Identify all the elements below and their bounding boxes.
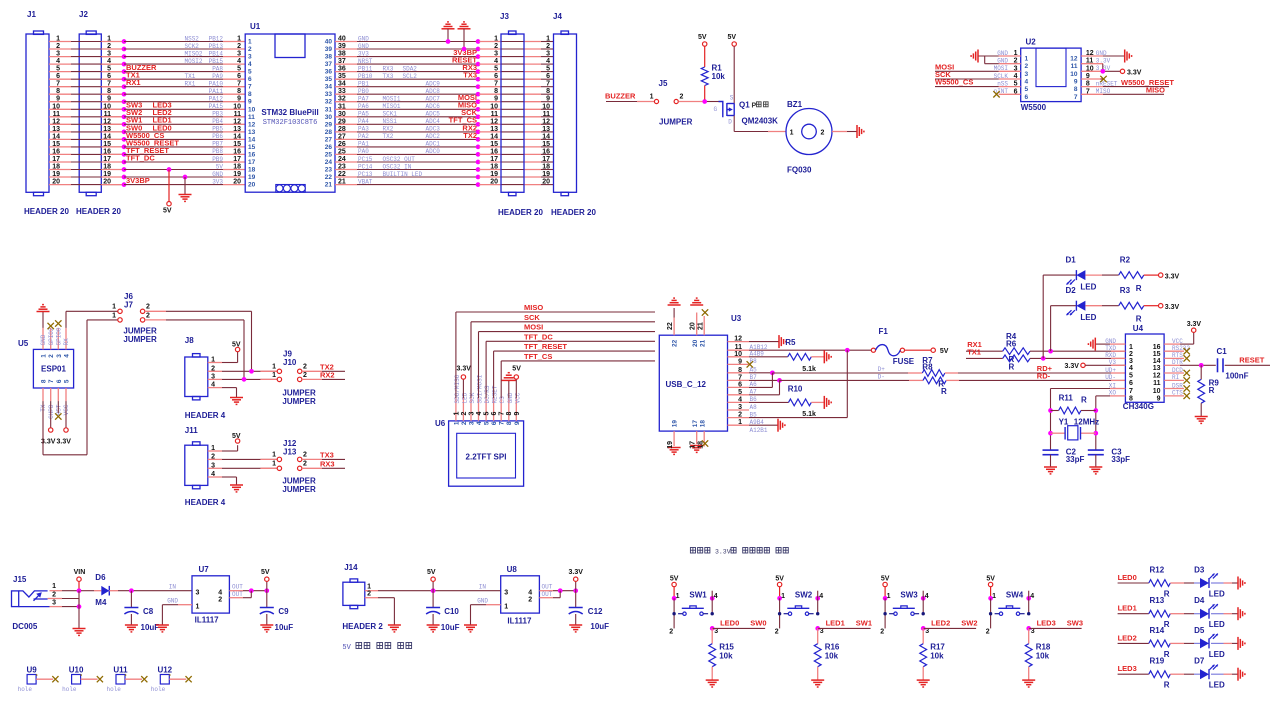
svg-text:10k: 10k	[719, 652, 733, 661]
svg-text:19: 19	[233, 171, 241, 178]
svg-text:10: 10	[103, 103, 111, 110]
svg-text:7: 7	[499, 412, 506, 416]
svg-text:J13: J13	[283, 448, 297, 457]
wire D3 to ground	[1211, 582, 1224, 584]
diode D6 M4	[81, 590, 94, 592]
module U6 2.2TFT SPI	[449, 421, 524, 486]
svg-text:R12: R12	[1150, 566, 1165, 575]
svg-text:1: 1	[676, 593, 680, 600]
svg-text:MISO: MISO	[1146, 86, 1165, 95]
power 3.3V U5 VCC	[65, 401, 67, 428]
svg-text:7: 7	[499, 421, 506, 425]
svg-text:2: 2	[367, 591, 371, 598]
svg-text:9: 9	[494, 96, 498, 103]
U1 bottom circles	[276, 185, 305, 193]
resistor R19	[1149, 671, 1171, 678]
J15 pin1 wire VIN	[50, 590, 63, 592]
buzzer BZ1 FQ030	[786, 109, 832, 155]
svg-text:LED3: LED3	[1037, 619, 1056, 628]
svg-text:W5500: W5500	[1021, 103, 1047, 112]
power 5V output U7	[266, 582, 268, 591]
svg-text:SDO/MISO: SDO/MISO	[454, 374, 461, 403]
svg-text:3: 3	[211, 462, 215, 469]
svg-text:RX3: RX3	[383, 65, 394, 72]
wire bus-right row 12	[335, 123, 357, 125]
svg-text:16: 16	[248, 151, 256, 158]
wire LED3	[1118, 673, 1149, 675]
svg-text:UD+: UD+	[1105, 367, 1116, 374]
svg-text:11: 11	[1071, 63, 1078, 70]
svg-text:10: 10	[490, 103, 498, 110]
svg-text:2: 2	[494, 43, 498, 50]
svg-text:3: 3	[494, 51, 498, 58]
svg-text:R5: R5	[785, 338, 796, 347]
resistor R17 10k	[922, 628, 924, 643]
svg-text:R8: R8	[922, 363, 933, 372]
svg-text:2: 2	[211, 453, 215, 460]
jumper J10	[277, 377, 281, 381]
svg-text:10k: 10k	[1036, 652, 1050, 661]
svg-text:SDI/MOSI: SDI/MOSI	[477, 375, 484, 404]
svg-text:2: 2	[303, 461, 307, 468]
U6 pin 8	[508, 398, 510, 421]
J8 pin 4	[208, 387, 222, 389]
svg-text:2: 2	[775, 628, 779, 635]
wire U6 MOSI	[478, 332, 480, 398]
svg-text:HEADER 20: HEADER 20	[76, 207, 121, 216]
svg-text:17: 17	[52, 156, 60, 163]
wire bus-right row 19	[335, 176, 357, 178]
svg-text:PB9: PB9	[212, 156, 223, 163]
svg-text:1: 1	[272, 364, 276, 371]
U2 pin 5 wire	[999, 86, 1021, 88]
svg-text:5: 5	[1129, 373, 1133, 380]
switch SW1	[672, 596, 677, 601]
U3 pin 17 to ground	[696, 431, 698, 444]
U3 pin2 wire to 5V net	[749, 417, 847, 419]
svg-text:SCK2: SCK2	[185, 43, 200, 50]
svg-text:MOSI: MOSI	[524, 323, 543, 332]
svg-text:34: 34	[338, 81, 346, 88]
U5 bottom pin 7	[50, 388, 52, 401]
svg-text:2: 2	[146, 304, 150, 311]
svg-text:9: 9	[56, 96, 60, 103]
svg-text:3.3V: 3.3V	[1096, 58, 1111, 65]
svg-text:4: 4	[528, 590, 532, 597]
U2 left grounds	[978, 55, 999, 57]
svg-text:STM32F103C8T6: STM32F103C8T6	[263, 119, 318, 127]
wire R12 to D3	[1170, 582, 1184, 584]
svg-text:2: 2	[461, 412, 468, 416]
svg-text:J4: J4	[553, 12, 562, 21]
wire bus-left row 16	[49, 153, 71, 155]
svg-text:2: 2	[237, 43, 241, 50]
svg-text:4: 4	[1030, 593, 1034, 600]
svg-text:10: 10	[248, 106, 256, 113]
svg-text:29: 29	[325, 121, 333, 128]
svg-text:HEADER 20: HEADER 20	[24, 207, 69, 216]
J14 pin1 wire	[365, 590, 378, 592]
svg-text:ESP01: ESP01	[41, 365, 66, 374]
wire bus-right row 14	[335, 138, 357, 140]
svg-text:D6: D6	[95, 573, 106, 582]
svg-text:ADC9: ADC9	[426, 81, 441, 88]
svg-text:37: 37	[338, 58, 346, 65]
svg-text:11: 11	[1153, 380, 1161, 387]
U2 pin 6 wire	[999, 93, 1021, 95]
ground U7 GND	[178, 604, 192, 606]
svg-text:1: 1	[272, 461, 276, 468]
wire U6 MISO	[455, 312, 457, 398]
svg-text:VBAT: VBAT	[358, 178, 373, 185]
svg-text:3: 3	[1025, 71, 1029, 78]
svg-text:LED0: LED0	[720, 619, 739, 628]
J15 pin2 wire	[48, 598, 62, 600]
svg-text:16: 16	[233, 148, 241, 155]
svg-text:11: 11	[104, 111, 112, 118]
U3 pin6 wire	[749, 386, 772, 388]
wire bus-right row 5	[335, 71, 357, 73]
svg-text:3.3V: 3.3V	[57, 439, 72, 446]
connector J11 HEADER 4	[185, 445, 208, 485]
svg-text:7: 7	[107, 81, 111, 88]
wire bus-right row 16	[335, 153, 357, 155]
wire R13 to D4	[1170, 613, 1184, 615]
svg-text:3: 3	[56, 354, 63, 358]
svg-text:5: 5	[64, 379, 71, 383]
svg-text:19: 19	[672, 420, 679, 428]
svg-text:NSS2: NSS2	[185, 35, 200, 42]
svg-text:IN: IN	[479, 584, 487, 591]
svg-text:UD-: UD-	[1105, 374, 1116, 381]
svg-text:1: 1	[52, 583, 56, 590]
svg-text:24: 24	[325, 159, 333, 166]
svg-text:LED: LED	[1209, 681, 1225, 690]
svg-text:PB0: PB0	[358, 88, 369, 95]
svg-text:18: 18	[52, 164, 60, 171]
wire bus-left row 6	[49, 78, 71, 80]
svg-text:12: 12	[248, 121, 256, 128]
no-connect U5 RST	[57, 401, 59, 413]
capacitor C8 10uF	[130, 591, 132, 608]
svg-text:17: 17	[692, 420, 699, 428]
svg-text:GND: GND	[40, 334, 47, 345]
svg-text:ADC4: ADC4	[426, 118, 441, 125]
svg-text:TFT_DC: TFT_DC	[524, 332, 553, 341]
svg-text:2: 2	[303, 372, 307, 379]
svg-text:PA3: PA3	[358, 126, 369, 133]
svg-text:15: 15	[52, 141, 60, 148]
wire bus-left row 1	[49, 41, 71, 43]
LED D4	[1200, 609, 1209, 619]
svg-text:J10: J10	[283, 358, 297, 367]
wire bus-left row 2	[49, 48, 71, 50]
svg-text:20: 20	[103, 179, 111, 186]
J11 pin 2	[208, 458, 222, 460]
svg-text:10: 10	[542, 103, 550, 110]
power 3.3V U4 VCC	[1164, 343, 1180, 345]
svg-text:27: 27	[325, 136, 333, 143]
no-connect U5 GPIO2	[48, 323, 54, 329]
ground SW1	[706, 679, 719, 681]
svg-text:20: 20	[248, 182, 256, 189]
U3 pin 4	[728, 401, 750, 403]
ground SW4	[1022, 679, 1035, 681]
svg-text:BUZZER: BUZZER	[605, 91, 636, 100]
ground D5	[1237, 637, 1239, 650]
svg-text:SW2: SW2	[961, 619, 977, 628]
svg-text:U9: U9	[26, 666, 37, 675]
wire BZ1 to ground	[832, 131, 847, 133]
svg-text:5: 5	[1025, 86, 1029, 93]
svg-text:5: 5	[237, 66, 241, 73]
svg-text:11: 11	[53, 111, 61, 118]
svg-text:J2: J2	[79, 10, 88, 19]
svg-text:F1: F1	[879, 327, 889, 336]
svg-text:7: 7	[56, 81, 60, 88]
svg-text:NSS1: NSS1	[383, 118, 398, 125]
svg-text:J1: J1	[27, 10, 36, 19]
U3 pin5 wire	[749, 394, 780, 396]
svg-text:PC15: PC15	[358, 156, 373, 163]
svg-text:6: 6	[107, 73, 111, 80]
svg-text:4: 4	[218, 590, 222, 597]
U3 pin 3	[728, 409, 750, 411]
U3 pin 5	[728, 394, 750, 396]
connector J1	[26, 34, 49, 192]
power 3.3V after R2	[1159, 273, 1163, 277]
svg-text:9: 9	[107, 96, 111, 103]
svg-text:6: 6	[494, 73, 498, 80]
wire bus-left row 9	[49, 101, 71, 103]
svg-text:19: 19	[667, 441, 674, 449]
svg-text:U2: U2	[1026, 38, 1037, 47]
power 5V (row18 tap)	[167, 167, 172, 172]
svg-text:40: 40	[325, 39, 333, 46]
svg-text:1: 1	[237, 36, 241, 43]
svg-text:8: 8	[41, 379, 48, 383]
U3 pin8 D+ junction	[749, 372, 772, 374]
svg-text:PB10: PB10	[358, 73, 373, 80]
svg-text:VIN: VIN	[74, 569, 86, 576]
svg-text:7: 7	[1086, 88, 1090, 95]
korean note buttons connect to 3.3V	[690, 548, 695, 554]
connector J8 HEADER 4	[185, 357, 208, 397]
svg-text:20: 20	[692, 339, 699, 347]
U3 pin1 ground	[749, 424, 778, 426]
wire LED1	[1118, 613, 1149, 615]
resistor R9	[1200, 365, 1202, 379]
svg-text:PA10: PA10	[209, 81, 224, 88]
U5 top pin 2	[50, 328, 52, 350]
svg-text:HEADER 20: HEADER 20	[551, 208, 596, 217]
IC U2 W5500	[1021, 48, 1081, 102]
wire bus-left row 5	[49, 71, 71, 73]
svg-text:4: 4	[211, 471, 215, 478]
svg-text:3.3V: 3.3V	[1187, 321, 1202, 328]
svg-text:2: 2	[546, 43, 550, 50]
LED D7	[1200, 669, 1209, 679]
svg-text:HEADER 2: HEADER 2	[342, 622, 383, 631]
svg-text:LED2: LED2	[1118, 633, 1137, 642]
svg-text:18: 18	[700, 420, 707, 428]
svg-text:1: 1	[56, 36, 60, 43]
svg-text:5V: 5V	[881, 576, 890, 583]
svg-text:1: 1	[211, 357, 215, 364]
svg-text:38: 38	[325, 54, 333, 61]
resistor R2	[1085, 274, 1102, 276]
svg-text:PA5: PA5	[358, 111, 369, 118]
svg-text:9: 9	[1086, 73, 1090, 80]
svg-text:R: R	[1081, 396, 1087, 405]
ground SW2	[811, 679, 824, 681]
wire 5V to Q1	[733, 46, 735, 103]
svg-text:U6: U6	[435, 419, 446, 428]
power 5V at J11	[222, 450, 238, 452]
svg-text:16: 16	[490, 148, 498, 155]
U2 pin 9 wire	[1081, 78, 1103, 80]
power 3.3V U5 CHPD	[50, 401, 52, 428]
svg-text:HEADER 4: HEADER 4	[185, 498, 226, 507]
svg-text:25: 25	[338, 148, 346, 155]
svg-text:Y1: Y1	[1059, 417, 1069, 426]
svg-text:12MHz: 12MHz	[1074, 417, 1099, 426]
svg-text:1: 1	[992, 593, 996, 600]
net label TX3	[302, 458, 322, 460]
svg-text:16: 16	[542, 148, 550, 155]
svg-text:PC14: PC14	[358, 163, 373, 170]
svg-text:5: 5	[546, 66, 550, 73]
wire bus-right row 8	[335, 93, 357, 95]
wire bus-left row 12	[49, 123, 71, 125]
resistor R10 5.1k (pin4)	[749, 401, 789, 403]
svg-text:1: 1	[272, 452, 276, 459]
resistor R8	[780, 379, 910, 381]
jumper J6	[118, 309, 122, 313]
svg-text:3: 3	[1014, 65, 1018, 72]
switch SW3	[883, 596, 888, 601]
svg-text:J15: J15	[13, 575, 27, 584]
svg-text:5: 5	[1014, 81, 1018, 88]
svg-text:1: 1	[781, 593, 785, 600]
svg-text:6: 6	[546, 73, 550, 80]
U3 pin 18 no-connect	[703, 431, 705, 446]
ground at J8 pin4	[222, 387, 237, 389]
svg-text:PB13: PB13	[209, 43, 224, 50]
ground U8 GND	[486, 604, 501, 606]
wire bus-right row 15	[335, 146, 357, 148]
svg-text:5: 5	[248, 69, 252, 76]
svg-text:17: 17	[103, 156, 111, 163]
U3 pin 22 to ground	[673, 318, 675, 336]
connector J15 DC005	[12, 591, 50, 607]
U5 bottom pin 8	[42, 388, 44, 401]
svg-text:32: 32	[338, 96, 346, 103]
svg-text:STM32 BluePill: STM32 BluePill	[261, 108, 318, 117]
svg-text:3.3V: 3.3V	[715, 549, 731, 556]
svg-text:R19: R19	[1150, 657, 1165, 666]
svg-text:2.2TFT SPI: 2.2TFT SPI	[466, 453, 507, 462]
svg-text:30: 30	[338, 111, 346, 118]
svg-text:34: 34	[325, 84, 333, 91]
svg-text:36: 36	[338, 66, 346, 73]
svg-text:OUT: OUT	[542, 584, 553, 591]
svg-text:R: R	[941, 387, 947, 396]
svg-text:8: 8	[1086, 81, 1090, 88]
svg-text:DC/RS: DC/RS	[484, 385, 491, 403]
svg-text:3: 3	[211, 373, 215, 380]
svg-text:10uF: 10uF	[275, 623, 294, 632]
U3 pin11 wire to fuse	[749, 349, 847, 351]
svg-text:SW1: SW1	[856, 619, 872, 628]
svg-text:R: R	[1136, 284, 1142, 293]
MCU U1 STM32 BluePill	[245, 34, 335, 192]
ground (row19 tap)	[183, 175, 188, 180]
U5 bottom pin 6	[57, 388, 59, 401]
svg-text:12: 12	[734, 336, 742, 343]
svg-text:40: 40	[338, 36, 346, 43]
wire J6 to J8 pin2	[145, 310, 166, 312]
svg-text:IL1117: IL1117	[195, 616, 220, 625]
svg-text:hole: hole	[18, 686, 33, 693]
U4 no-connect pins	[1164, 350, 1184, 352]
resistor R4	[1003, 348, 1030, 355]
svg-text:15: 15	[248, 144, 256, 151]
svg-text:FQ030: FQ030	[787, 166, 812, 175]
svg-text:2: 2	[680, 94, 684, 101]
svg-text:18: 18	[490, 164, 498, 171]
svg-text:J8: J8	[185, 336, 194, 345]
svg-text:10: 10	[1153, 388, 1161, 395]
ground at J11 pin4	[222, 476, 237, 478]
svg-text:6: 6	[1025, 94, 1029, 101]
svg-text:3: 3	[546, 51, 550, 58]
ground above J3 (GND row2)	[458, 28, 471, 30]
svg-text:LED2: LED2	[931, 619, 950, 628]
svg-text:7: 7	[1074, 94, 1078, 101]
svg-text:3: 3	[248, 54, 252, 61]
svg-text:8: 8	[738, 367, 742, 374]
J14 pin2 wire to ground	[365, 597, 378, 599]
svg-text:4: 4	[819, 593, 823, 600]
svg-text:8: 8	[237, 88, 241, 95]
svg-text:2: 2	[1014, 58, 1018, 65]
svg-text:3: 3	[738, 404, 742, 411]
no-connect U5 GPIO0	[55, 320, 61, 326]
svg-text:1: 1	[504, 604, 508, 611]
svg-text:19: 19	[52, 171, 60, 178]
U2 3.3V bend pin11	[1102, 64, 1104, 72]
svg-text:RD-: RD-	[1037, 372, 1051, 381]
U2 pin 12 wire	[1081, 55, 1103, 57]
svg-text:IL1117: IL1117	[507, 617, 532, 626]
svg-text:11: 11	[248, 114, 255, 121]
svg-text:MISO: MISO	[524, 303, 543, 312]
svg-text:2: 2	[821, 130, 825, 137]
svg-text:32: 32	[325, 99, 333, 106]
svg-text:35: 35	[325, 76, 333, 83]
capacitor C12 10uF	[575, 591, 577, 608]
svg-text:4: 4	[248, 61, 252, 68]
U6 pin 3	[470, 398, 472, 421]
U2 pin 4 wire	[999, 78, 1021, 80]
svg-text:SCK: SCK	[524, 313, 540, 322]
power 5V at R1	[703, 42, 707, 46]
wire U4 XI to crystal	[1110, 388, 1125, 390]
svg-text:RX1: RX1	[185, 81, 196, 88]
U3 pin12 ground	[749, 341, 779, 343]
svg-text:1: 1	[248, 39, 252, 46]
